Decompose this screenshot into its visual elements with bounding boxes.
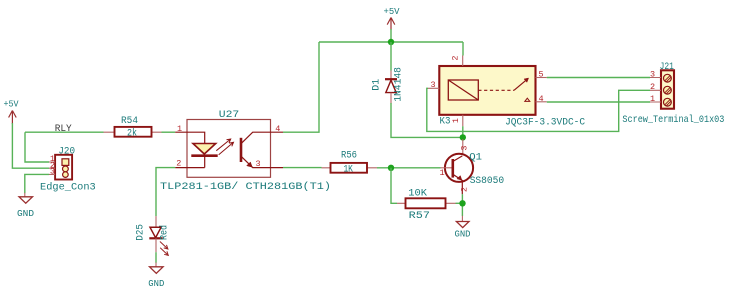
wire +5V to J20 pin 2 [12,123,49,168]
wire J20 pin 3 to ground [25,174,49,193]
svg-text:R56: R56 [341,149,357,161]
resistor R57 [397,188,456,223]
wire base node down to R57 [391,168,397,204]
K3 coil [448,80,478,100]
wire +5V rail [283,29,463,132]
svg-text:GND: GND [17,209,34,219]
K3 pin 2 [462,56,464,67]
U27 phototransistor [240,138,243,162]
power +5V (top) [384,7,401,30]
svg-text:3: 3 [50,167,55,177]
svg-text:Screw_Terminal_01x03: Screw_Terminal_01x03 [622,114,724,126]
wire R57 to emitter node [456,202,463,204]
U27 LED light arrows [216,139,230,151]
K3 pin 1 [462,115,464,126]
svg-text:GND: GND [455,229,471,239]
svg-text:SS8050: SS8050 [470,175,505,187]
wire emitter to ground [461,194,463,216]
U27 pin 2 [175,167,205,169]
wire relay pin 3 (common) to J21 pin 2 [427,88,650,131]
wire net RLY horizontal [25,131,104,133]
J20 pad pin 1 [62,159,69,166]
K3 pin 3 [428,87,439,89]
wire D1 to collector node [391,103,463,137]
node collector junction [460,134,466,140]
svg-text:3: 3 [459,145,469,150]
node junction on +5V rail [388,39,394,45]
svg-text:+5V: +5V [4,100,20,110]
node emitter junction [459,200,465,206]
J20 pad pin 2 [63,166,69,172]
Q1 base pin [441,167,452,169]
wire U27 pin 3 to R56 [283,167,322,169]
ground GND (below Q1) [455,216,471,240]
svg-text:1: 1 [177,124,182,134]
wire net RLY down to J20 pin 1 [25,132,49,162]
J21 screw pads [664,74,672,106]
svg-text:TLP281-1GB/ CTH281GB(T1): TLP281-1GB/ CTH281GB(T1) [160,181,331,193]
svg-text:K3: K3 [440,115,451,127]
D25 light arrows [160,242,168,250]
K3 armature dashed link [478,89,514,91]
wire U27 pin 2 to D25 [156,168,175,217]
K3 switch lever [514,81,526,91]
connector J20 [40,145,96,193]
svg-text:R54: R54 [121,115,138,127]
svg-text:1: 1 [451,118,461,123]
resistor R56 [322,149,378,175]
svg-text:3: 3 [430,80,435,90]
svg-text:+5V: +5V [384,7,401,17]
relay K3 [428,55,585,128]
svg-text:2: 2 [176,158,181,168]
K3 pin 5 [536,77,547,79]
svg-text:D25: D25 [135,224,147,241]
Q1 emitter lead [453,174,463,194]
diode D1 [371,42,405,104]
svg-text:2: 2 [650,82,655,92]
svg-text:GND: GND [148,279,164,289]
wire D25 to ground [155,252,157,263]
svg-text:Q1: Q1 [469,151,482,163]
LED D25 [135,216,171,255]
wire R54 to U27 pin 1 [162,131,176,133]
U27 pin 1 [175,132,205,143]
svg-text:Red: Red [159,225,171,240]
wire relay pin 4 to J21 pin 1 [547,101,650,103]
wire relay pin 5 to J21 pin 3 [547,77,650,79]
svg-text:3: 3 [255,159,260,169]
resistor R54 [104,115,162,139]
Q1 collector lead [453,156,463,162]
svg-text:1: 1 [440,168,445,178]
J20 pad pin 3 [63,172,69,178]
ground GND (below J20) [17,193,34,219]
svg-text:2k: 2k [127,128,137,140]
svg-text:3: 3 [650,69,655,79]
K3 pin 4 [536,101,547,103]
svg-text:4: 4 [538,94,543,104]
svg-text:JQC3F-3.3VDC-C: JQC3F-3.3VDC-C [505,116,585,128]
svg-text:5: 5 [538,70,543,80]
connector J21 [622,61,724,126]
svg-text:RLY: RLY [55,124,72,135]
svg-text:Edge_Con3: Edge_Con3 [40,181,96,193]
J21 pin stubs [650,78,661,103]
svg-text:4: 4 [275,124,280,134]
ground GND (below D25) [148,263,164,290]
transistor Q1 [440,139,505,194]
svg-text:1N4148: 1N4148 [392,67,404,102]
svg-text:D1: D1 [371,79,383,91]
J20 pin stubs [49,162,55,174]
Q1 collector pin [462,139,464,156]
power +5V (left) [4,100,20,125]
svg-text:1K: 1K [343,163,353,175]
svg-text:R57: R57 [409,210,430,222]
opto-coupler U27 [160,109,331,193]
node base junction [388,165,394,171]
U27 LED [193,144,216,155]
wire relay pin 1 to collector node [462,126,464,137]
svg-text:2: 2 [459,187,469,192]
svg-text:1: 1 [650,94,655,104]
K3 NC contact [525,98,530,101]
wire R56 to Q1 base [377,167,441,169]
svg-text:2: 2 [451,55,461,60]
